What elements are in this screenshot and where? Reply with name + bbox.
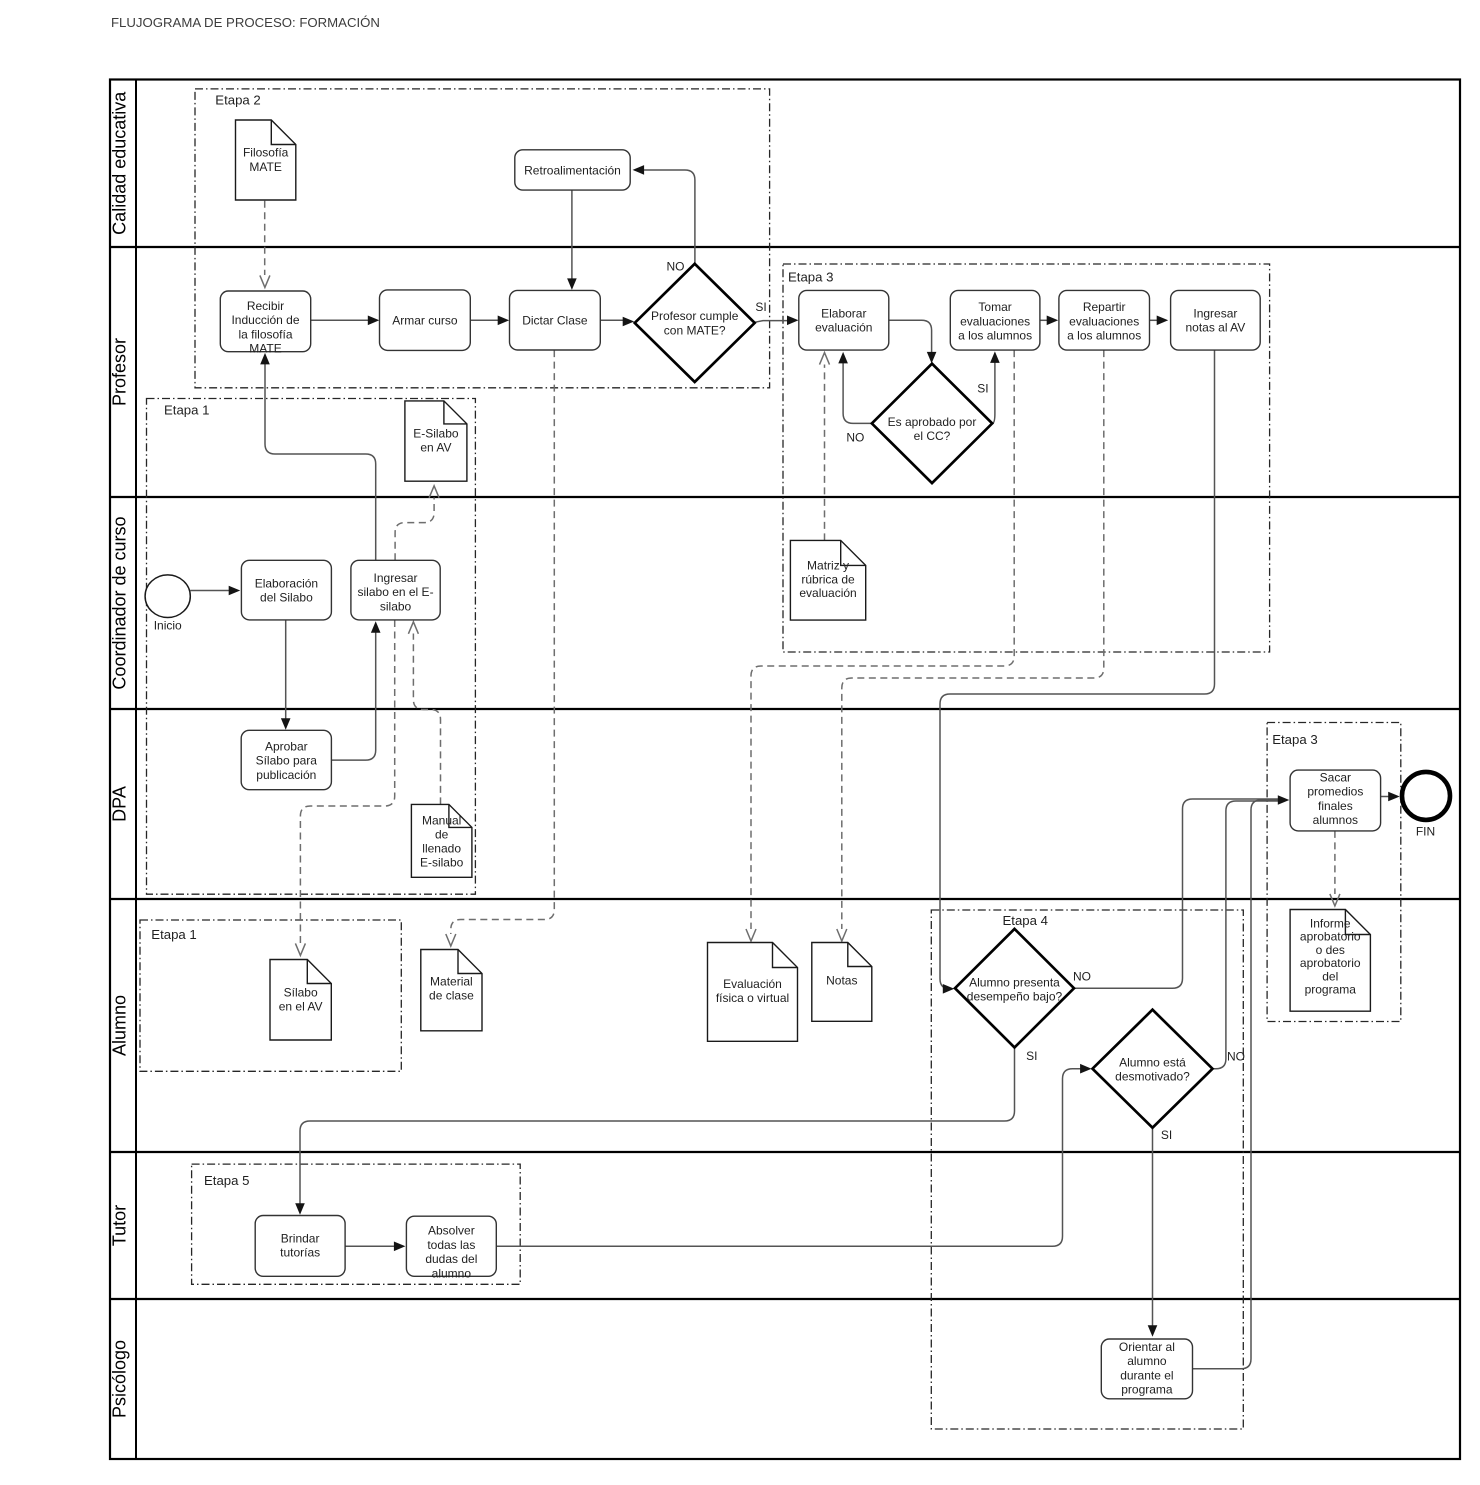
task Ingresar silabo en el E-silabo: [351, 560, 440, 620]
svg-text:Ingresar: Ingresar: [1193, 306, 1237, 320]
svg-text:Etapa 4: Etapa 4: [1003, 913, 1048, 928]
stage frame Etapa 1 (alumno): [140, 920, 401, 1071]
svg-text:Inducción de: Inducción de: [231, 313, 299, 327]
svg-text:Tomar: Tomar: [978, 300, 1011, 314]
stage frame Etapa 3 (profesor): [783, 264, 1270, 652]
wire Brindar tutorias to Absolver dudas: [345, 1242, 405, 1252]
lane divider above Coordinador de curso: [110, 496, 1460, 498]
svg-text:Es aprobado por: Es aprobado por: [888, 415, 977, 429]
svg-text:evaluación: evaluación: [799, 586, 856, 600]
stage frame Etapa 1 (coordinador): [147, 399, 476, 895]
svg-text:Ingresar: Ingresar: [374, 571, 418, 585]
svg-text:Informe: Informe: [1310, 916, 1351, 930]
task Repartir evaluaciones a los alumnos: [1059, 290, 1150, 350]
svg-text:Dictar Clase: Dictar Clase: [522, 314, 588, 328]
svg-text:silabo en el E-: silabo en el E-: [358, 585, 434, 599]
svg-text:Absolver: Absolver: [428, 1224, 475, 1238]
svg-text:SI: SI: [977, 381, 988, 395]
svg-text:todas las: todas las: [427, 1238, 475, 1252]
message Tomar evaluaciones to Evaluacion fisica doc: [746, 350, 1014, 941]
svg-text:NO: NO: [667, 260, 685, 274]
svg-text:Brindar: Brindar: [281, 1231, 320, 1245]
svg-text:Material: Material: [430, 975, 473, 989]
svg-text:SI: SI: [755, 300, 766, 314]
svg-text:Manual: Manual: [422, 813, 461, 827]
svg-text:física o virtual: física o virtual: [716, 991, 789, 1005]
document Manual de llenado E-silabo: [411, 804, 472, 877]
task Armar curso: [380, 290, 471, 351]
task Absolver todas las dudas del alumno: [406, 1216, 496, 1280]
wire Aprobar Silabo to Ingresar silabo: [331, 621, 380, 760]
task Dictar Clase: [510, 290, 601, 350]
svg-text:MATE: MATE: [249, 160, 281, 174]
svg-text:Orientar al: Orientar al: [1119, 1340, 1175, 1354]
document E-Silabo en AV: [405, 401, 467, 481]
svg-text:SI: SI: [1161, 1128, 1172, 1142]
task Ingresar notas al AV: [1171, 290, 1261, 350]
svg-text:E-Silabo: E-Silabo: [413, 426, 459, 440]
wire Elaborar evaluacion to decision Es aprobado: [889, 320, 937, 363]
svg-text:MATE: MATE: [249, 342, 281, 356]
svg-text:durante el: durante el: [1120, 1368, 1173, 1382]
svg-text:desmotivado?: desmotivado?: [1115, 1070, 1190, 1084]
svg-text:en AV: en AV: [420, 440, 451, 454]
document Matriz y rubrica de evaluacion: [790, 540, 865, 620]
svg-text:tutorías: tutorías: [280, 1246, 320, 1260]
wire Tomar evaluaciones to Repartir evaluaciones: [1040, 316, 1058, 326]
svg-text:FIN: FIN: [1416, 825, 1435, 839]
svg-text:Coordinador de curso: Coordinador de curso: [110, 516, 130, 689]
message Filosofia MATE doc to Recibir Induccion: [260, 201, 270, 288]
svg-text:Filosofía: Filosofía: [243, 146, 289, 160]
svg-text:programa: programa: [1121, 1383, 1173, 1397]
svg-text:Alumno presenta: Alumno presenta: [969, 975, 1060, 989]
svg-text:Etapa 1: Etapa 1: [151, 927, 196, 942]
svg-text:Sílabo para: Sílabo para: [256, 754, 318, 768]
svg-text:SI: SI: [1026, 1049, 1037, 1063]
svg-text:Matriz y: Matriz y: [807, 559, 849, 573]
svg-text:programa: programa: [1305, 983, 1357, 997]
svg-text:o des: o des: [1316, 943, 1345, 957]
svg-text:finales: finales: [1318, 799, 1353, 813]
svg-text:de: de: [435, 827, 449, 841]
svg-text:a los alumnos: a los alumnos: [1067, 329, 1141, 343]
wire decision Alumno presenta NO to Sacar promedios: [1074, 799, 1281, 988]
wire decision Alumno presenta SI to Brindar tutorias: [295, 1048, 1014, 1215]
svg-text:publicación: publicación: [256, 768, 316, 782]
svg-text:Notas: Notas: [826, 974, 857, 988]
svg-text:promedios: promedios: [1307, 785, 1363, 799]
svg-text:rúbrica de: rúbrica de: [801, 572, 855, 586]
svg-text:llenado: llenado: [422, 842, 461, 856]
decision Profesor cumple con MATE: [635, 264, 755, 382]
lane divider above Tutor: [110, 1151, 1460, 1153]
decision Alumno esta desmotivado: [1093, 1010, 1213, 1128]
wire Absolver dudas to decision Alumno desmotivado: [496, 1064, 1091, 1246]
svg-text:E-silabo: E-silabo: [420, 856, 464, 870]
task Tomar evaluaciones a los alumnos: [950, 290, 1040, 350]
task Retroalimentacion: [515, 150, 630, 190]
svg-text:Inicio: Inicio: [154, 619, 182, 633]
task Elaboracion del Silabo: [241, 560, 331, 620]
document Silabo en el AV: [270, 960, 331, 1041]
svg-text:alumno: alumno: [432, 1266, 472, 1280]
svg-text:Etapa 3: Etapa 3: [1272, 732, 1317, 747]
svg-text:evaluaciones: evaluaciones: [960, 314, 1030, 328]
wire Ingresar notas al AV to decision Alumno presenta: [940, 350, 1215, 994]
svg-text:aprobatorio: aprobatorio: [1300, 930, 1361, 944]
message Matriz y rubrica doc to Elaborar evaluacion: [820, 353, 830, 541]
svg-text:Profesor: Profesor: [110, 338, 130, 406]
svg-text:Sacar: Sacar: [1320, 771, 1351, 785]
svg-text:Recibir: Recibir: [247, 299, 284, 313]
svg-text:NO: NO: [1073, 969, 1091, 983]
lane divider above Alumno: [110, 898, 1460, 900]
stage frame Etapa 3 (DPA right): [1267, 723, 1401, 1022]
svg-text:silabo: silabo: [380, 599, 412, 613]
svg-text:en el AV: en el AV: [279, 1000, 323, 1014]
wire decision Es aprobado SI to Tomar evaluaciones: [990, 351, 1000, 423]
message Sacar promedios to Informe doc: [1330, 831, 1340, 906]
svg-text:Etapa 1: Etapa 1: [164, 403, 209, 418]
wire Elaboracion del Silabo to Aprobar Silabo: [281, 620, 291, 730]
wire Inicio to Elaboracion del Silabo: [190, 586, 240, 596]
svg-text:Elaboración: Elaboración: [255, 576, 318, 590]
wire decision Es aprobado NO to Elaborar evaluacion: [838, 352, 872, 424]
document Evaluacion fisica o virtual: [708, 943, 798, 1042]
svg-text:a los alumnos: a los alumnos: [958, 329, 1032, 343]
decision Es aprobado por el CC: [872, 364, 992, 483]
wire Orientar al alumno to Sacar promedios: [1193, 800, 1282, 1369]
svg-text:dudas del: dudas del: [425, 1252, 477, 1266]
svg-text:del Silabo: del Silabo: [260, 591, 313, 605]
svg-text:evaluaciones: evaluaciones: [1069, 314, 1139, 328]
message Ingresar silabo to E-Silabo doc: [395, 486, 439, 561]
arrowhead into Sacar promedios: [1278, 795, 1290, 805]
svg-text:Sílabo: Sílabo: [284, 985, 318, 999]
svg-text:Alumno: Alumno: [110, 995, 130, 1056]
svg-text:Calidad educativa: Calidad educativa: [110, 91, 130, 235]
task Orientar al alumno durante el programa: [1101, 1339, 1192, 1399]
stage frame Etapa 5: [192, 1164, 521, 1284]
wire decision Alumno desmotivado NO to Sacar promedios: [1213, 801, 1282, 1069]
wire Recibir Induccion to Armar curso: [311, 316, 380, 326]
svg-text:Elaborar: Elaborar: [821, 306, 866, 320]
svg-text:NO: NO: [1227, 1050, 1245, 1064]
task Aprobar Silabo para publicacion: [241, 730, 331, 789]
message Ingresar silabo to Silabo en el AV doc: [295, 620, 394, 955]
svg-text:Alumno está: Alumno está: [1119, 1055, 1186, 1069]
wire decision Profesor cumple NO to Retroalimentacion: [633, 165, 695, 264]
task Brindar tutorias: [255, 1216, 345, 1277]
lane label column separator: [135, 80, 137, 1460]
wire Dictar Clase to decision Profesor cumple: [600, 317, 634, 327]
svg-text:con MATE?: con MATE?: [664, 323, 726, 337]
wire Sacar promedios to FIN: [1381, 792, 1400, 802]
svg-text:Evaluación: Evaluación: [723, 977, 782, 991]
svg-text:aprobatorio: aprobatorio: [1300, 956, 1361, 970]
lane divider above DPA: [110, 708, 1460, 710]
document Material de clase: [421, 950, 482, 1031]
svg-text:evaluación: evaluación: [815, 321, 872, 335]
wire Ingresar silabo to Recibir Induccion: [260, 353, 376, 560]
message Manual de llenado doc to Ingresar silabo: [408, 622, 440, 805]
svg-text:FLUJOGRAMA DE PROCESO: FORMACI: FLUJOGRAMA DE PROCESO: FORMACIÓN: [111, 15, 380, 30]
svg-text:Psicólogo: Psicólogo: [110, 1340, 130, 1418]
svg-text:Etapa 3: Etapa 3: [788, 270, 833, 285]
document Filosofia MATE: [236, 120, 296, 200]
svg-text:Aprobar: Aprobar: [265, 740, 308, 754]
svg-text:notas al AV: notas al AV: [1185, 321, 1245, 335]
decision Alumno presenta desempeno bajo: [955, 929, 1074, 1048]
stage frame Etapa 2: [195, 89, 770, 388]
svg-text:alumno: alumno: [1127, 1354, 1167, 1368]
svg-text:NO: NO: [846, 431, 864, 445]
svg-text:desempeño bajo?: desempeño bajo?: [967, 990, 1063, 1004]
document Notas: [812, 943, 872, 1022]
task Sacar promedios finales alumnos: [1290, 770, 1381, 831]
task Recibir Induccion de la filosofia MATE: [220, 291, 310, 356]
lane divider above Profesor: [110, 246, 1460, 248]
svg-text:DPA: DPA: [110, 786, 130, 822]
svg-text:Profesor cumple: Profesor cumple: [651, 309, 739, 323]
svg-text:de clase: de clase: [429, 989, 474, 1003]
wire Armar curso to Dictar Clase: [470, 316, 509, 326]
svg-text:Armar curso: Armar curso: [392, 314, 458, 328]
lane divider above Psicólogo: [110, 1298, 1460, 1300]
message Dictar Clase to Material de clase doc: [446, 350, 555, 946]
svg-text:Repartir: Repartir: [1083, 300, 1126, 314]
wire decision Profesor cumple SI to Elaborar evaluacion: [755, 316, 799, 326]
svg-text:Etapa 2: Etapa 2: [215, 92, 260, 107]
end event FIN: [1402, 772, 1450, 839]
task Elaborar evaluacion: [799, 290, 889, 350]
svg-text:el CC?: el CC?: [914, 429, 951, 443]
start event Inicio: [145, 575, 190, 633]
document Informe aprobatorio o desaprobatorio: [1290, 910, 1370, 1012]
stage frame Etapa 4: [931, 910, 1243, 1429]
svg-text:Tutor: Tutor: [110, 1205, 130, 1246]
svg-text:Etapa 5: Etapa 5: [204, 1173, 249, 1188]
svg-text:Retroalimentación: Retroalimentación: [524, 163, 621, 177]
wire decision Alumno desmotivado SI to Orientar: [1148, 1128, 1158, 1337]
message Repartir evaluaciones to Notas doc: [837, 350, 1104, 941]
wire Retroalimentacion to Dictar Clase: [567, 190, 577, 290]
svg-text:del: del: [1322, 969, 1338, 983]
svg-text:alumnos: alumnos: [1313, 813, 1358, 827]
svg-text:la filosofía: la filosofía: [238, 327, 292, 341]
wire Repartir evaluaciones to Ingresar notas: [1150, 316, 1169, 326]
